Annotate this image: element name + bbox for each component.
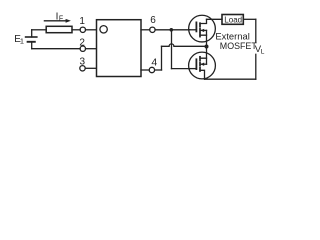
svg-text:1: 1	[79, 16, 85, 27]
svg-text:MOSFET: MOSFET	[220, 41, 258, 51]
svg-text:3: 3	[80, 57, 86, 68]
svg-text:External: External	[215, 31, 249, 42]
svg-text:6: 6	[150, 15, 156, 26]
svg-text:F: F	[59, 15, 63, 22]
svg-text:4: 4	[151, 56, 157, 68]
svg-text:Load: Load	[224, 15, 242, 24]
svg-text:1: 1	[20, 36, 24, 45]
svg-text:2: 2	[79, 37, 85, 48]
svg-text:L: L	[261, 48, 265, 55]
